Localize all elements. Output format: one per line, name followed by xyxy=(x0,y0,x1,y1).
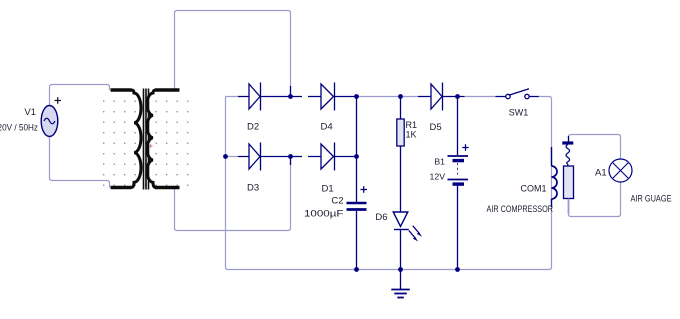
svg-text:D1: D1 xyxy=(322,184,334,195)
svg-text:V1: V1 xyxy=(24,107,36,118)
battery B1 xyxy=(448,156,469,184)
svg-text:AIR COMPRESSOR: AIR COMPRESSOR xyxy=(487,204,554,214)
plus sign B1 xyxy=(462,144,468,150)
svg-text:D6: D6 xyxy=(375,212,387,223)
core xyxy=(144,89,149,190)
svg-text:B1: B1 xyxy=(434,157,445,167)
AC source V1 xyxy=(41,106,58,137)
svg-text:D5: D5 xyxy=(430,122,442,133)
LED D6 xyxy=(393,212,409,230)
svg-text:12V: 12V xyxy=(430,172,446,182)
wire battery column top xyxy=(457,97,459,156)
relay body xyxy=(564,166,574,199)
wire COM1 column navy segment xyxy=(551,147,553,207)
wire ground stub xyxy=(400,270,402,290)
relay contact bar xyxy=(562,141,573,144)
ground xyxy=(391,290,410,298)
switch SW1 xyxy=(506,89,529,99)
wire relay branch top xyxy=(569,135,621,159)
plus sign V1 xyxy=(55,97,62,103)
secondary top stub xyxy=(155,88,180,92)
relay spring xyxy=(566,145,570,167)
wire bridge right column xyxy=(356,97,358,203)
LED D6 arrows xyxy=(409,226,422,242)
wire stub into top middle junction xyxy=(290,86,292,97)
diode D3 xyxy=(249,143,261,171)
diode D5 xyxy=(431,83,443,111)
diode D4 xyxy=(321,83,335,111)
lamp A1 xyxy=(609,159,632,182)
svg-text:D3: D3 xyxy=(247,183,259,194)
svg-text:D2: D2 xyxy=(247,122,259,133)
svg-text:R1: R1 xyxy=(406,120,418,130)
svg-text:1K: 1K xyxy=(406,130,417,140)
wire D3 navy segments xyxy=(238,156,291,158)
svg-text:COM1: COM1 xyxy=(520,184,546,194)
wire R1 column top xyxy=(400,97,402,120)
inductor COM1 xyxy=(552,166,558,199)
wire battery column bottom xyxy=(457,186,459,270)
wire V1 bottom to transformer xyxy=(50,137,110,188)
svg-text:220V / 50Hz: 220V / 50Hz xyxy=(0,123,38,133)
capacitor C2 xyxy=(347,203,367,210)
diode D1 xyxy=(321,143,335,171)
wire D1 navy segments xyxy=(291,156,357,158)
wire R1 to LED xyxy=(400,146,402,212)
wire V1 top to transformer xyxy=(50,85,110,106)
junction dots xyxy=(223,94,460,272)
wire D4 navy segments xyxy=(291,96,357,98)
resistor R1 xyxy=(397,119,404,146)
wire bottom diode row light segment xyxy=(226,156,239,158)
primary bottom stub xyxy=(111,186,132,190)
svg-text:C2: C2 xyxy=(331,196,343,207)
transformer T1 xyxy=(111,89,180,190)
wire top rail light segments xyxy=(226,96,551,98)
wire transformer secondary top loop xyxy=(175,11,291,91)
wire D2 navy segments xyxy=(238,96,291,98)
svg-text:AIR GUAGE: AIR GUAGE xyxy=(631,194,672,204)
wire LED to bottom rail xyxy=(400,230,402,270)
diode D2 xyxy=(249,83,261,111)
wire relay branch bottom xyxy=(569,183,621,217)
wire transformer secondary bottom link xyxy=(175,163,291,231)
primary top stub xyxy=(111,88,132,92)
wire relay top stub xyxy=(568,136,570,142)
secondary bottom stub xyxy=(155,186,180,190)
wire below C2 xyxy=(356,211,358,270)
svg-text:SW1: SW1 xyxy=(509,108,529,118)
svg-text:A1: A1 xyxy=(595,168,607,179)
wire D5 navy segments xyxy=(418,96,539,98)
wire relay body bottom stub xyxy=(568,199,570,215)
red mark xyxy=(149,144,153,147)
svg-text:D4: D4 xyxy=(321,122,333,133)
plus sign C2 xyxy=(361,186,368,192)
grid dot field behind transformer xyxy=(103,95,191,191)
svg-text:1000µF: 1000µF xyxy=(304,209,344,219)
wire left bridge column xyxy=(226,97,552,270)
primary winding xyxy=(131,90,141,188)
secondary winding xyxy=(147,90,156,188)
wire stub into bottom middle junction xyxy=(290,157,292,166)
